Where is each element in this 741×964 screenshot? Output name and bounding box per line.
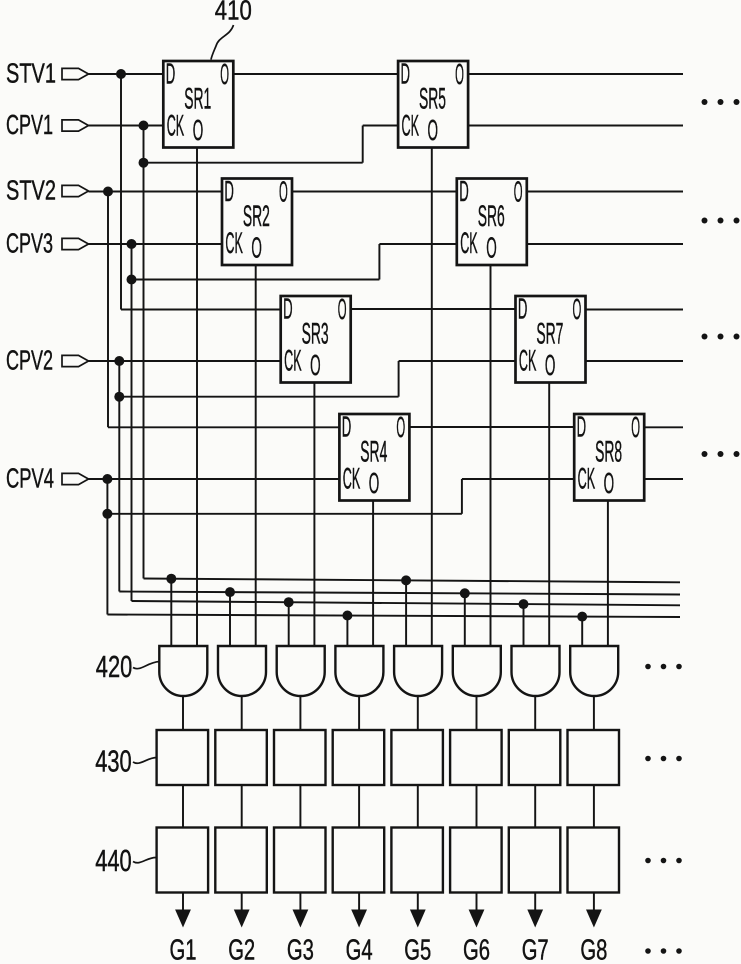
wire CPV2 vertical down to bus	[118, 361, 120, 592]
wire SR2 output down to AND gate 2	[255, 265, 257, 646]
node CPV4 junction	[102, 474, 112, 484]
AND gate 4 (row 420)	[335, 646, 383, 696]
buffer 430-2	[215, 730, 266, 785]
svg-text:CPV1: CPV1	[6, 109, 53, 140]
wire SR4 O to SR8 D	[409, 426, 574, 428]
svg-text:D: D	[518, 294, 528, 326]
wire SR2 O to SR6 D	[292, 191, 457, 193]
node CPV2 junction	[114, 356, 124, 366]
wire SR5 CK continuation	[468, 125, 683, 127]
wire bus tap down to AND gate 6	[464, 593, 466, 646]
svg-text:O: O	[428, 115, 439, 147]
buffer 430-8	[568, 730, 620, 785]
wire CPV1 branch below SR1	[144, 162, 363, 164]
buffer 430-3	[274, 730, 326, 785]
wire CPV3 branch below SR2	[132, 279, 380, 281]
wire buffer 6 interstage	[476, 785, 478, 828]
shift register SR3	[281, 294, 351, 383]
wire CPV2 to SR3 CK	[89, 360, 281, 362]
svg-text:410: 410	[215, 0, 252, 25]
node bus tap for AND gate 5	[401, 575, 411, 585]
node STV2 junction	[103, 187, 113, 197]
svg-text:D: D	[577, 412, 587, 444]
svg-text:G1: G1	[170, 935, 197, 964]
wire AND gate 4 output stem	[358, 696, 360, 730]
wire STV1 branch to SR3 D	[121, 309, 281, 311]
wire AND gate 2 output stem	[241, 696, 243, 730]
label G7	[522, 935, 549, 964]
AND gate 1 (row 420)	[159, 646, 207, 696]
buffer 430-7	[509, 730, 561, 785]
label G4	[346, 935, 373, 964]
svg-text:SR1: SR1	[184, 83, 211, 116]
svg-text:430: 430	[95, 744, 132, 779]
wire bus tap down to AND gate 4	[346, 616, 348, 647]
svg-text:CK: CK	[519, 345, 537, 378]
node bus tap for AND gate 6	[460, 588, 470, 598]
wire riser to SR5 CK	[363, 126, 398, 163]
wire SR1 O to SR5 D	[233, 73, 398, 75]
label G2	[228, 935, 255, 964]
svg-text:O: O	[545, 350, 556, 382]
node bus tap for AND gate 3	[284, 597, 294, 607]
AND gate 3 (row 420)	[277, 646, 325, 696]
svg-text:D: D	[401, 59, 411, 91]
wire STV2 to SR2 D	[89, 191, 223, 193]
svg-text:CK: CK	[343, 463, 361, 496]
svg-text:G7: G7	[522, 935, 549, 964]
wire riser to SR8 CK	[462, 479, 574, 514]
AND gate 2 (row 420)	[218, 646, 266, 696]
ellipsis continuation row 2	[702, 218, 740, 224]
svg-text:CK: CK	[284, 345, 302, 378]
buffer 430-1	[157, 730, 209, 785]
input terminal CPV1	[6, 109, 89, 140]
svg-text:D: D	[224, 176, 234, 208]
svg-text:SR8: SR8	[595, 436, 622, 469]
wire buffer 7 interstage	[534, 785, 536, 828]
wire bus tap down to AND gate 8	[581, 617, 583, 646]
svg-text:O: O	[279, 177, 288, 209]
svg-text:G2: G2	[228, 935, 255, 964]
buffer 440-5	[391, 828, 443, 893]
wire riser to SR7 CK	[399, 361, 516, 397]
wire AND gate 3 output stem	[299, 696, 301, 730]
wire CPV4 bus line	[107, 615, 680, 618]
wire bus tap down to AND gate 1	[170, 579, 172, 646]
wire SR5 O output to next stage	[468, 73, 683, 75]
wire CPV2 bus line	[119, 592, 680, 595]
AND gate 6 (row 420)	[453, 646, 501, 696]
shift register SR8	[574, 412, 644, 501]
buffer 430-5	[391, 730, 443, 785]
input terminal STV1	[6, 57, 89, 88]
label G8	[580, 935, 607, 964]
wire SR8 O output to next stage	[644, 426, 683, 428]
input terminal CPV3	[6, 227, 89, 258]
wire AND gate 8 output stem	[593, 696, 595, 730]
svg-text:D: D	[342, 412, 352, 444]
node STV1 junction	[116, 69, 126, 79]
input terminal CPV2	[6, 344, 89, 375]
wire output arrow G2	[234, 893, 250, 928]
wire CPV1 to SR1 CK	[89, 125, 164, 127]
wire SR4 output down to AND gate 4	[372, 501, 374, 647]
wire buffer 8 interstage	[593, 785, 595, 828]
wire AND gate 1 output stem	[182, 696, 184, 730]
svg-text:O: O	[396, 412, 405, 444]
input terminal CPV4	[6, 462, 89, 493]
wire CPV1 bus line	[144, 579, 681, 583]
node bus tap for AND gate 2	[225, 587, 235, 597]
svg-text:CK: CK	[460, 227, 478, 260]
shift register SR4	[339, 412, 409, 501]
buffer 440-8	[568, 828, 620, 893]
ellipsis continuation row 1	[702, 99, 740, 105]
svg-text:420: 420	[96, 649, 133, 684]
svg-text:STV2: STV2	[6, 174, 56, 205]
svg-text:O: O	[604, 468, 615, 500]
wire SR7 output down to AND gate 7	[548, 383, 550, 647]
svg-text:O: O	[220, 59, 229, 91]
svg-text:G3: G3	[287, 935, 314, 964]
shift register SR5	[398, 59, 468, 148]
wire SR3 O to SR7 D	[351, 308, 516, 310]
wire output arrow G1	[175, 893, 191, 928]
svg-text:O: O	[455, 59, 464, 91]
svg-text:CK: CK	[167, 110, 185, 143]
svg-text:O: O	[486, 233, 497, 265]
node bus tap for AND gate 4	[342, 611, 352, 621]
node CPV4 branch junction	[102, 509, 112, 519]
wire CPV3 bus line	[132, 601, 681, 605]
wire buffer 2 interstage	[241, 785, 243, 828]
node bus tap for AND gate 7	[519, 599, 529, 609]
ellipsis AND gate row	[645, 664, 682, 670]
wire output arrow G5	[410, 893, 426, 928]
AND gate 8 (row 420)	[570, 646, 618, 696]
wire STV1 vertical branch	[120, 74, 122, 310]
svg-text:SR7: SR7	[536, 318, 563, 351]
wire SR6 output down to AND gate 6	[490, 265, 492, 646]
wire output arrow G4	[351, 893, 367, 928]
svg-text:CK: CK	[402, 110, 420, 143]
svg-text:O: O	[193, 115, 204, 147]
buffer 440-6	[450, 828, 502, 893]
svg-text:SR5: SR5	[419, 83, 446, 116]
shift register SR1	[163, 59, 233, 148]
wire CPV4 vertical down to bus	[106, 479, 108, 615]
svg-text:O: O	[369, 468, 380, 500]
wire buffer 5 interstage	[417, 785, 419, 828]
svg-text:SR3: SR3	[302, 318, 329, 351]
svg-text:STV1: STV1	[6, 57, 56, 88]
wire output arrow G8	[586, 893, 602, 928]
node CPV2 branch junction	[114, 392, 124, 402]
svg-text:O: O	[514, 177, 523, 209]
svg-text:O: O	[573, 294, 582, 326]
label 420	[96, 649, 159, 684]
wire AND gate 6 output stem	[476, 696, 478, 730]
node bus tap for AND gate 8	[577, 612, 587, 622]
buffer 430-4	[333, 730, 385, 785]
svg-text:G8: G8	[580, 935, 607, 964]
label G1	[170, 935, 197, 964]
label 410	[215, 0, 252, 25]
wire AND gate 7 output stem	[534, 696, 536, 730]
wire bus tap down to AND gate 3	[288, 602, 290, 646]
wire STV2 branch to SR4 D	[108, 426, 339, 428]
svg-text:CK: CK	[578, 463, 596, 496]
ellipsis buffer row 430	[645, 756, 682, 762]
wire SR8 CK continuation	[644, 478, 683, 480]
wire bus tap down to AND gate 2	[229, 592, 231, 646]
wire output arrow G3	[293, 893, 309, 928]
wire SR7 O output to next stage	[586, 309, 684, 311]
label G6	[463, 935, 490, 964]
wire bus tap down to AND gate 7	[523, 604, 525, 646]
label G3	[287, 935, 314, 964]
ellipsis gate output row	[645, 948, 682, 954]
buffer 440-7	[509, 828, 561, 893]
buffer 430-6	[450, 730, 502, 785]
shift register SR7	[516, 294, 586, 383]
wire CPV3 vertical down to bus	[131, 244, 133, 601]
leader line for 410	[211, 25, 234, 60]
svg-text:CPV4: CPV4	[6, 462, 54, 493]
node CPV1 branch junction	[139, 158, 149, 168]
wire CPV1 vertical down to bus	[143, 126, 145, 579]
svg-text:G5: G5	[404, 935, 431, 964]
wire SR1 output down to AND gate 1	[196, 148, 198, 647]
wire SR5 output down to AND gate 5	[431, 148, 433, 647]
svg-text:CK: CK	[225, 227, 243, 260]
svg-text:D: D	[459, 176, 469, 208]
label G5	[404, 935, 431, 964]
wire SR6 CK continuation	[527, 243, 683, 245]
svg-text:O: O	[310, 350, 321, 382]
svg-text:CPV2: CPV2	[6, 344, 53, 375]
svg-text:440: 440	[95, 843, 132, 878]
wire output arrow G7	[527, 893, 543, 928]
AND gate 5 (row 420)	[394, 646, 442, 696]
wire buffer 4 interstage	[358, 785, 360, 828]
node CPV1 junction	[139, 121, 149, 131]
buffer 440-3	[274, 828, 326, 893]
wire SR3 output down to AND gate 3	[313, 383, 315, 647]
wire CPV3 to SR2 CK	[89, 243, 223, 245]
ellipsis continuation row 3	[702, 334, 740, 340]
wire STV1 to SR1 D	[89, 73, 164, 75]
wire bus tap down to AND gate 5	[405, 580, 407, 646]
svg-text:G6: G6	[463, 935, 490, 964]
svg-text:D: D	[283, 294, 293, 326]
wire SR7 CK continuation	[586, 360, 684, 362]
svg-text:O: O	[338, 294, 347, 326]
ellipsis buffer row 440	[645, 858, 682, 864]
shift register SR2	[222, 176, 292, 265]
input terminal STV2	[6, 174, 89, 205]
svg-text:O: O	[251, 233, 262, 265]
buffer 440-4	[333, 828, 385, 893]
wire STV2 vertical branch	[107, 192, 109, 428]
wire buffer 1 interstage	[182, 785, 184, 828]
wire SR6 O output to next stage	[527, 191, 683, 193]
svg-text:SR6: SR6	[478, 200, 505, 233]
node CPV3 junction	[127, 239, 137, 249]
node bus tap for AND gate 1	[166, 574, 176, 584]
wire buffer 3 interstage	[299, 785, 301, 828]
wire riser to SR6 CK	[379, 244, 456, 280]
svg-text:G4: G4	[346, 935, 373, 964]
label 440	[95, 843, 156, 878]
svg-text:D: D	[166, 59, 176, 91]
wire AND gate 5 output stem	[417, 696, 419, 730]
svg-text:SR2: SR2	[243, 200, 270, 233]
buffer 440-1	[157, 828, 209, 893]
node CPV3 branch junction	[127, 275, 137, 285]
label 430	[95, 744, 156, 779]
wire CPV2 branch below SR3	[119, 396, 398, 398]
wire SR8 output down to AND gate 8	[607, 501, 609, 647]
ellipsis continuation row 4	[702, 451, 740, 457]
wire CPV4 branch below SR4	[107, 513, 462, 515]
buffer 440-2	[215, 828, 266, 893]
wire output arrow G6	[469, 893, 485, 928]
svg-text:CPV3: CPV3	[6, 227, 53, 258]
AND gate 7 (row 420)	[512, 646, 560, 696]
shift register SR6	[457, 176, 527, 265]
wire CPV4 to SR4 CK	[89, 478, 340, 480]
svg-text:SR4: SR4	[360, 436, 387, 469]
svg-text:O: O	[631, 412, 640, 444]
